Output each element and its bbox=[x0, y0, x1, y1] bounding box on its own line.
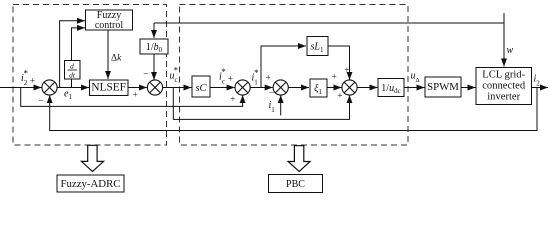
wire xi1 to S5 bbox=[327, 87, 342, 89]
svg-text:+: + bbox=[266, 74, 271, 84]
summing junction S1 bbox=[42, 80, 57, 95]
wire e1 from S1 to NLSEF bbox=[57, 87, 89, 89]
block 1/udc bbox=[378, 79, 404, 97]
svg-text:e1: e1 bbox=[64, 89, 72, 102]
block sC bbox=[192, 76, 210, 97]
wire NLSEF to S2 bbox=[128, 87, 147, 89]
svg-text:−: − bbox=[143, 69, 148, 79]
svg-text:+: + bbox=[230, 95, 235, 105]
svg-text:−: − bbox=[38, 96, 43, 106]
svg-text:PBC: PBC bbox=[286, 179, 305, 190]
wire i2* feedforward to S3 bbox=[21, 88, 243, 107]
svg-text:uc*: uc* bbox=[170, 66, 179, 85]
wire w branch to 1/b0 bbox=[154, 22, 504, 24]
svg-text:+: + bbox=[344, 66, 349, 76]
summing junction S4 bbox=[273, 80, 288, 95]
svg-text:Δk: Δk bbox=[111, 54, 122, 64]
svg-text:uΔ: uΔ bbox=[411, 71, 420, 85]
summing junction S3 bbox=[235, 80, 250, 95]
svg-text:inverter: inverter bbox=[487, 91, 520, 102]
svg-text:+: + bbox=[133, 91, 138, 101]
block sL1 bbox=[307, 37, 328, 56]
svg-text:Fuzzy-ADRC: Fuzzy-ADRC bbox=[61, 178, 121, 190]
wire i1* branch to sL1 bbox=[261, 46, 306, 88]
dashed box PBC region bbox=[180, 5, 409, 146]
block arrow to PBC label bbox=[288, 146, 310, 172]
wire delta-k from Fuzzy control to NLSEF bbox=[107, 30, 109, 79]
wire i1 measured input to S4 bbox=[280, 95, 282, 115]
wire SPWM to LCL inverter bbox=[461, 87, 476, 89]
wire i2 output bbox=[532, 87, 549, 89]
block 1/b0 bbox=[140, 39, 168, 54]
wire e1 to d/dt block bbox=[71, 79, 73, 88]
summing junction S5 bbox=[342, 80, 357, 95]
svg-text:i2: i2 bbox=[534, 73, 541, 87]
svg-text:control: control bbox=[95, 20, 124, 31]
svg-text:dt: dt bbox=[69, 71, 76, 80]
svg-text:SPWM: SPWM bbox=[427, 81, 459, 93]
wire sL1 to S5 bbox=[328, 46, 350, 80]
svg-text:+: + bbox=[337, 92, 342, 102]
block SPWM bbox=[425, 77, 461, 97]
block arrow to Fuzzy-ADRC label bbox=[81, 145, 103, 171]
summing junction S2 bbox=[147, 80, 162, 95]
wire ic* from sC to S3 bbox=[210, 87, 235, 89]
block Fuzzy control bbox=[86, 10, 133, 31]
block xi1 bbox=[310, 79, 327, 97]
wire u-delta from 1/udc to SPWM bbox=[404, 87, 425, 89]
svg-text:ic*: ic* bbox=[219, 67, 226, 86]
svg-text:+: + bbox=[228, 74, 233, 84]
wire 1/b0 to S2 bbox=[153, 54, 155, 80]
svg-text:NLSEF: NLSEF bbox=[91, 82, 126, 94]
wire S5 to 1/udc bbox=[357, 87, 377, 89]
svg-text:w: w bbox=[507, 45, 514, 56]
svg-text:+: + bbox=[332, 73, 337, 83]
wire w line to 1/b0 bbox=[153, 23, 155, 38]
svg-text:connected: connected bbox=[482, 81, 526, 92]
block NLSEF bbox=[90, 80, 129, 96]
svg-text:i2*: i2* bbox=[21, 69, 28, 88]
wire d/dt to Fuzzy control input 2 bbox=[72, 28, 86, 61]
svg-text:d: d bbox=[70, 62, 74, 71]
wire w input to LCL inverter bbox=[503, 13, 505, 67]
svg-text:i1: i1 bbox=[269, 100, 276, 114]
wire S4 to xi1 bbox=[288, 87, 309, 89]
block Fuzzy-ADRC caption bbox=[57, 175, 124, 192]
wire i1* from S3 to S4 bbox=[250, 87, 273, 89]
svg-text:i1*: i1* bbox=[252, 68, 260, 87]
wire e1 to Fuzzy control input 1 bbox=[60, 21, 85, 88]
svg-text:LCL grid-: LCL grid- bbox=[482, 69, 525, 80]
block LCL grid-connected inverter bbox=[476, 68, 532, 105]
wire uc* from S2 to sC bbox=[163, 87, 192, 89]
block PBC caption bbox=[269, 175, 323, 193]
wire uc* feedforward to S5 bbox=[173, 88, 349, 120]
dashed box Fuzzy-ADRC region bbox=[13, 5, 167, 146]
svg-text:+: + bbox=[30, 77, 35, 87]
derivative block d/dt bbox=[65, 61, 81, 80]
wire i2 feedback to S1 bbox=[50, 88, 537, 131]
svg-text:sC: sC bbox=[195, 83, 207, 94]
wire input i2* bbox=[0, 87, 42, 89]
